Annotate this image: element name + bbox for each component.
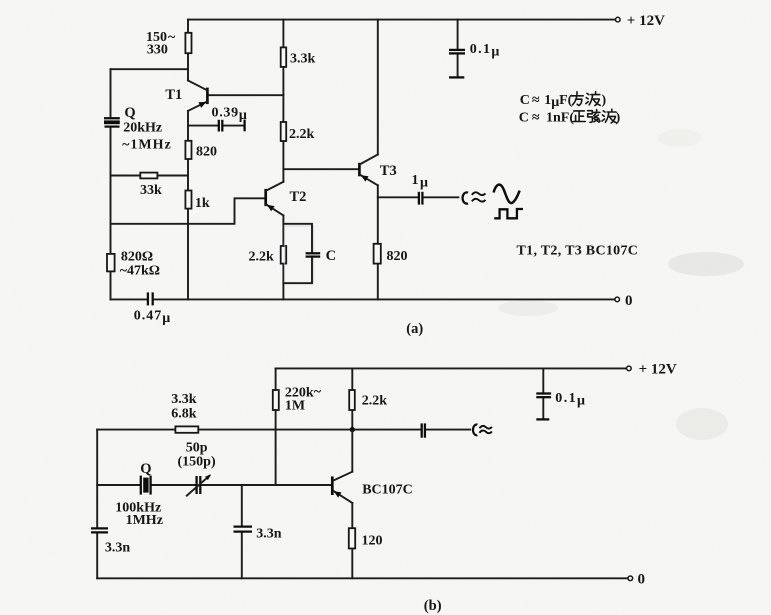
svg-text:): ) bbox=[616, 110, 621, 125]
wire main y430 (b) bbox=[97, 429, 470, 431]
svg-text:0.47μ: 0.47μ bbox=[134, 308, 171, 326]
label 0 (a) bbox=[625, 293, 633, 309]
label T1 bbox=[165, 87, 182, 103]
label 120 bbox=[362, 533, 383, 548]
svg-text:0.39μ: 0.39μ bbox=[212, 106, 248, 124]
svg-text:BC107C: BC107C bbox=[362, 482, 413, 497]
svg-text:3.3k: 3.3k bbox=[290, 52, 316, 67]
wire bottom 0 rail (b) bbox=[97, 577, 627, 579]
resistor 1k bbox=[185, 191, 191, 209]
wire base T2 lower y224 bbox=[111, 198, 265, 224]
wire left column (b) bbox=[96, 430, 98, 579]
svg-text:≈: ≈ bbox=[532, 93, 540, 108]
wire 220k column (b) bbox=[275, 368, 277, 485]
svg-text:0: 0 bbox=[625, 293, 633, 309]
label 820 (T3) bbox=[387, 249, 408, 264]
label 2.2k lower bbox=[249, 249, 275, 264]
svg-text:+ 12V: + 12V bbox=[627, 13, 665, 29]
svg-text:20kHz: 20kHz bbox=[123, 120, 162, 135]
label 0.1u (b) bbox=[555, 391, 586, 409]
svg-text:1μF(: 1μF( bbox=[544, 93, 572, 110]
svg-text:1M: 1M bbox=[285, 399, 305, 414]
label 3.3n mid bbox=[256, 526, 282, 541]
svg-text:2.2k: 2.2k bbox=[289, 127, 315, 142]
label T2 bbox=[290, 189, 307, 205]
terminal +12V (a) bbox=[616, 17, 621, 22]
terminal 0 (a) bbox=[615, 297, 620, 302]
scan artifact faint box near C bbox=[285, 226, 314, 283]
label BC107C bbox=[362, 482, 413, 497]
svg-text:~1MHz: ~1MHz bbox=[122, 137, 172, 152]
wire emitter/collector column (b) bbox=[351, 430, 353, 579]
wire top +12V rail (a) bbox=[188, 19, 615, 21]
terminal 0 (b) bbox=[628, 576, 633, 581]
svg-text:T2: T2 bbox=[290, 189, 307, 205]
sine wave glyph bbox=[494, 185, 520, 203]
label 50p (150p) bbox=[178, 440, 216, 469]
wire 0.1u column (b) bbox=[542, 368, 544, 418]
transistor T2 bbox=[266, 182, 284, 216]
capacitor C branch bbox=[283, 224, 320, 283]
svg-text:2.2k: 2.2k bbox=[249, 249, 275, 264]
label 1k bbox=[195, 196, 210, 211]
resistor 220k~1M bbox=[273, 390, 279, 410]
wire base line y485 (b) bbox=[97, 484, 331, 486]
svg-text:C: C bbox=[326, 248, 336, 264]
label 0.47u bbox=[134, 308, 171, 326]
label ~1MHz bbox=[122, 137, 172, 152]
terminal +12V (b) bbox=[627, 366, 632, 371]
label 33k bbox=[140, 183, 162, 198]
output approx symbol (b) bbox=[479, 426, 492, 433]
resistor 2.2k (b) bbox=[349, 390, 355, 410]
note T1 T2 T3 BC107C bbox=[517, 243, 639, 258]
capacitor 3.3n left (b) bbox=[91, 528, 108, 532]
resistor 3.3k (a) bbox=[281, 47, 287, 67]
svg-text:T1, T2, T3 BC107C: T1, T2, T3 BC107C bbox=[517, 243, 639, 258]
label 2.2k (b) bbox=[362, 393, 388, 408]
svg-text:820: 820 bbox=[387, 249, 408, 264]
resistor 120 bbox=[349, 528, 355, 548]
transistor T1 bbox=[188, 81, 207, 111]
wire x377 column T3 (a) bbox=[377, 20, 379, 300]
svg-text:C: C bbox=[519, 110, 529, 125]
svg-text:0.1μ: 0.1μ bbox=[470, 42, 501, 60]
svg-text:C: C bbox=[520, 93, 530, 108]
label C bbox=[326, 248, 336, 264]
capacitor 0.47u (series in bottom rail) bbox=[148, 292, 153, 305]
svg-text:T1: T1 bbox=[165, 87, 182, 103]
svg-text:1nF(: 1nF( bbox=[546, 110, 574, 125]
svg-text:820: 820 bbox=[196, 145, 217, 160]
label 1u bbox=[412, 173, 430, 191]
capacitor coupling output (b) bbox=[422, 423, 425, 437]
crystal Q (a) bbox=[104, 117, 120, 128]
resistor 2.2k lower (T2 emitter) bbox=[281, 246, 287, 264]
wire node collector T1 horizontal y69 bbox=[111, 68, 189, 70]
wire x188 column (a) bbox=[187, 20, 189, 300]
svg-text:3.3k: 3.3k bbox=[171, 392, 197, 407]
label 0.1u (a) bbox=[470, 42, 501, 60]
wire bottom 0 rail (a) bbox=[111, 298, 615, 300]
svg-text:(b): (b) bbox=[424, 598, 442, 614]
node junction dot (b) bbox=[350, 427, 355, 432]
label 20kHz bbox=[123, 120, 162, 135]
capacitor 1u output (a) bbox=[419, 192, 423, 205]
capacitor 3.3n mid (b) bbox=[234, 527, 253, 532]
wire output (a) y197 bbox=[378, 196, 459, 198]
svg-text:~47kΩ: ~47kΩ bbox=[120, 264, 160, 279]
capacitor 0.39u branch bbox=[188, 120, 245, 132]
transistor T3 bbox=[359, 155, 377, 186]
label +12V (b) bbox=[639, 361, 677, 377]
wire 3.3n column (b) bbox=[241, 485, 243, 578]
svg-text:(150p): (150p) bbox=[178, 455, 216, 470]
label 3.3n left bbox=[105, 540, 130, 555]
label T3 bbox=[380, 163, 397, 179]
label Q (a) bbox=[124, 105, 135, 121]
svg-text:): ) bbox=[602, 93, 607, 108]
transistor BC107C (b) bbox=[332, 472, 352, 503]
wire base T3 y169 bbox=[283, 168, 358, 170]
svg-text:(a): (a) bbox=[406, 321, 423, 337]
label 220k~1M bbox=[285, 385, 322, 414]
svg-text:820Ω: 820Ω bbox=[121, 250, 153, 265]
caption (b) bbox=[424, 598, 442, 614]
crystal Q (b) bbox=[141, 476, 151, 495]
label Q (b) bbox=[140, 461, 151, 477]
label 100kHz 1MHz bbox=[115, 500, 163, 528]
resistor 2.2k upper (a) bbox=[281, 122, 287, 141]
svg-text:0.1μ: 0.1μ bbox=[555, 391, 586, 409]
trimmer capacitor 50p(150p) bbox=[187, 474, 211, 495]
svg-text:1MHz: 1MHz bbox=[126, 513, 163, 528]
label 0.39u bbox=[212, 106, 248, 124]
square wave glyph bbox=[494, 209, 523, 218]
svg-text:6.8k: 6.8k bbox=[171, 406, 197, 421]
wire 2.2k column (b) bbox=[351, 368, 353, 429]
svg-text:330: 330 bbox=[147, 43, 168, 58]
resistor 820 (T1 emitter) bbox=[185, 141, 191, 159]
svg-text:1k: 1k bbox=[195, 196, 210, 211]
note C=1uF square wave bbox=[520, 92, 607, 110]
svg-text:+ 12V: + 12V bbox=[639, 361, 677, 377]
svg-text:≈: ≈ bbox=[532, 110, 540, 125]
caption (a) bbox=[406, 321, 423, 337]
terminal output arc (b) bbox=[473, 425, 477, 436]
output approx symbol (a) bbox=[472, 192, 486, 201]
label 820 (T1) bbox=[196, 145, 217, 160]
svg-text:1μ: 1μ bbox=[412, 173, 430, 191]
wire top +12V rail (b) bbox=[276, 367, 627, 369]
svg-text:Q: Q bbox=[124, 105, 135, 121]
svg-text:Q: Q bbox=[140, 461, 151, 477]
capacitor 0.1u (b) bbox=[536, 394, 551, 420]
wire 33k branch bbox=[111, 175, 189, 177]
label 150~330 bbox=[146, 30, 176, 58]
resistor 820ohm~47kohm bbox=[107, 254, 115, 272]
label 820ohm~47kohm bbox=[120, 250, 160, 279]
terminal output arc (a) bbox=[463, 192, 468, 203]
svg-text:3.3n: 3.3n bbox=[256, 526, 282, 541]
resistor 820 (T3 emitter) bbox=[374, 244, 381, 264]
note C=1nF sine wave bbox=[519, 109, 621, 125]
wire base T1 y95 bbox=[208, 94, 283, 96]
resistor 33k bbox=[140, 173, 157, 179]
label 3.3k (a) bbox=[290, 52, 316, 67]
capacitor 0.1u (a) bbox=[449, 20, 465, 78]
svg-text:T3: T3 bbox=[380, 163, 397, 179]
svg-text:50p: 50p bbox=[186, 440, 208, 455]
label 3.3k 6.8k (b) bbox=[171, 392, 197, 422]
label 0 (b) bbox=[638, 571, 646, 587]
resistor 150~330 bbox=[185, 33, 191, 53]
svg-text:3.3n: 3.3n bbox=[105, 540, 130, 555]
svg-text:0: 0 bbox=[638, 571, 646, 587]
wire left column (a) bbox=[110, 69, 112, 299]
wire x283 column (a) bbox=[282, 20, 284, 300]
svg-text:2.2k: 2.2k bbox=[362, 393, 388, 408]
resistor 3.3k/6.8k (b) bbox=[175, 426, 198, 432]
svg-text:120: 120 bbox=[362, 533, 383, 548]
svg-text:33k: 33k bbox=[140, 183, 162, 198]
label +12V (a) bbox=[627, 13, 665, 29]
label 2.2k upper bbox=[289, 127, 315, 142]
